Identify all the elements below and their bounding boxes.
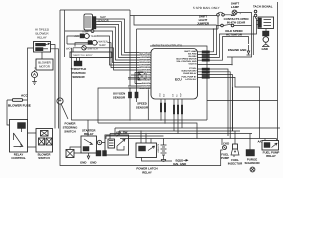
bus wire y133.5 (110, 134, 252, 140)
junction dots bottom buses (129, 119, 131, 121)
wire ps switch down to bottom bus (60, 104, 223, 165)
fuel pump relay (262, 141, 279, 151)
svg-text:JUMPER: JUMPER (197, 22, 210, 26)
svg-text:LATCH RLY: LATCH RLY (185, 78, 197, 81)
relay aux contact circle (97, 140, 101, 144)
svg-text:IGN. GND: IGN. GND (173, 162, 186, 166)
wire injector drop (234, 131, 236, 144)
inline connectors below ECU (160, 103, 183, 114)
svg-text:GND: GND (158, 92, 161, 97)
junction circle sensor (91, 30, 94, 33)
label OXYGEN SENSOR (113, 92, 126, 100)
wires stack1 to top right (210, 21, 259, 61)
ECU right connector stack 1 (198, 51, 210, 61)
oxygen sensor connector (128, 92, 131, 120)
label POWER LATCH RELAY (136, 167, 157, 175)
fuel injector (231, 144, 239, 157)
idle speed actuator (258, 17, 274, 29)
starter relay (81, 136, 97, 153)
junction dot wot (110, 57, 112, 59)
oxygen sensor drop wire (129, 88, 131, 92)
ECU right pin labels (176, 50, 197, 81)
speed sensor drop wire (136, 84, 138, 93)
svg-text:INJECTOR: INJECTOR (228, 162, 243, 166)
svg-text:SWITCH: SWITCH (38, 156, 49, 160)
wire ecu to engine gnd junction (198, 57, 233, 65)
big box bottom left corner wire (72, 46, 278, 120)
svg-text:RELAY: RELAY (84, 132, 94, 136)
pointer to label (61, 104, 68, 119)
actuator inline connector (263, 31, 270, 36)
WOT switch (66, 46, 98, 51)
svg-text:TEMP: TEMP (91, 35, 98, 38)
ground under starter relay (87, 153, 90, 159)
wire long vertical speed sensor feed (136, 29, 138, 84)
svg-text:THROTTLE BODY: THROTTLE BODY (73, 54, 93, 57)
wire enclosure top to shift light jumper (130, 10, 217, 86)
svg-text:SWITCH: SWITCH (64, 130, 75, 134)
wire air temp to ECU (67, 36, 151, 65)
wires to TPS (73, 48, 80, 61)
wire wot bus to contacts (137, 16, 252, 29)
svg-text:SENSOR: SENSOR (72, 75, 85, 79)
junction dots (129, 87, 131, 89)
svg-text:AIR: AIR (75, 35, 79, 38)
shift light jumper (217, 12, 225, 16)
wire ecu aux drop (147, 88, 149, 120)
wire fuel pump relay feed (265, 139, 277, 141)
svg-text:TEMP: TEMP (99, 44, 106, 47)
wire relay bottom to blower motor (41, 52, 43, 59)
svg-text:TACH IN: TACH IN (188, 63, 197, 66)
ECU bottom pin stubs (161, 99, 182, 105)
bus wire y138.5 (120, 138, 277, 140)
svg-text:WTR TEMP: WTR TEMP (139, 59, 151, 62)
svg-text:INJ: INJ (175, 94, 178, 97)
engine sensor enclosure left edge (59, 10, 61, 98)
blower fuse (7, 99, 28, 102)
wire wot switch row (67, 44, 151, 70)
label FUEL PUMP left (221, 153, 229, 161)
wire starter relay to ign switch (97, 142, 106, 144)
label IDLE SPEED ACTUATOR (225, 29, 242, 37)
actuator motor (263, 36, 269, 42)
wires ECU bottom pins to buses (161, 112, 182, 134)
svg-text:VSS GND: VSS GND (141, 78, 151, 81)
blower switch (36, 129, 53, 153)
MAP sensor (84, 14, 96, 30)
fuel pump sender (223, 146, 227, 150)
power latch relay (136, 143, 172, 161)
svg-text:BLOWER FUSE: BLOWER FUSE (8, 104, 31, 108)
speed sensor connector (135, 92, 138, 102)
svg-text:BATTERY: BATTERY (157, 144, 160, 154)
label FUEL INJECTOR (228, 158, 243, 166)
ground under actuator motor (262, 42, 270, 51)
ignition switch (105, 135, 129, 155)
bus wire y131 (119, 131, 240, 135)
wire drops into power latch relay (141, 131, 151, 143)
svg-text:GND: GND (262, 47, 268, 51)
enclosure top edge (60, 9, 130, 11)
label MAP SENSOR (97, 16, 108, 23)
svg-text:CKD: CKD (223, 142, 229, 146)
hi speed blower relay (34, 42, 51, 53)
svg-text:TACH SIGNAL: TACH SIGNAL (253, 5, 273, 9)
wire fuse to relay control (7, 100, 10, 125)
label CONTACTS OPEN IN 4TH GEAR (224, 17, 249, 25)
wire lamp to contacts chain (227, 13, 253, 58)
svg-text:ACC: ACC (21, 94, 28, 98)
air temp sensor (75, 34, 98, 39)
ground under battery (161, 158, 166, 162)
svg-text:SENSOR: SENSOR (113, 96, 126, 100)
svg-text:GND: GND (80, 161, 86, 165)
label PURGE SOLENOID (244, 158, 259, 166)
diagnostic connector (138, 72, 146, 80)
label SHIFT LIGHT JUMPER (197, 15, 210, 26)
wire right side vertical pair (232, 87, 234, 131)
enclosure inner left edge (64, 10, 66, 57)
wire nss to starter relay (70, 147, 81, 153)
label BLOWER SWITCH (38, 153, 52, 160)
wire junction to ECU (65, 31, 151, 63)
label SPEED SENSOR (136, 102, 149, 110)
svg-text:PUMP: PUMP (221, 156, 229, 160)
throttle body box (70, 52, 112, 58)
svg-text:SOLENOID: SOLENOID (244, 161, 259, 165)
svg-text:RELAY: RELAY (266, 154, 276, 158)
throttle position sensor connector (74, 61, 82, 66)
wire relay left down to relay control (28, 48, 34, 120)
label GND GND (80, 161, 96, 165)
ECU box (151, 49, 198, 100)
svg-text:LAMP: LAMP (231, 5, 239, 9)
water temp sensor (88, 40, 108, 47)
svg-text:SENSOR: SENSOR (136, 106, 149, 110)
wire purge solenoid drop (249, 134, 251, 150)
inline connectors under ign area (96, 151, 107, 157)
wire bundle lower-left of ECU (128, 73, 151, 89)
svg-text:RELAY: RELAY (142, 171, 152, 175)
ground under blower motor (32, 78, 37, 85)
svg-text:IN 4TH GEAR: IN 4TH GEAR (227, 21, 246, 25)
battery (157, 139, 167, 159)
tach connector (254, 2, 277, 141)
svg-text:GND: GND (90, 161, 96, 165)
wire jumper to lamp (224, 14, 234, 17)
eng gnd arrow (184, 159, 188, 161)
label B2D ENG GND (173, 159, 186, 167)
svg-text:MOTOR: MOTOR (39, 65, 50, 69)
ECU right connector stack 2 (198, 68, 210, 78)
wire actuator to motor (265, 29, 267, 32)
wire drop into starter relay (87, 120, 89, 136)
label THROTTLE POSITION SENSOR (71, 67, 86, 79)
svg-text:ENGINE GND: ENGINE GND (228, 48, 246, 52)
blower motor symbol (32, 72, 38, 78)
bus wire y123 (98, 88, 197, 139)
bus wire y128 (115, 128, 280, 135)
wires stack2 to bottom right (210, 69, 260, 139)
contacts switch (221, 24, 234, 27)
shift lamp (232, 10, 237, 15)
engine ground arrow (247, 45, 251, 55)
power steering switch (57, 98, 63, 104)
svg-text:RELAY: RELAY (37, 36, 47, 40)
label FUEL PUMP RELAY (263, 151, 280, 159)
label SHIFT LAMP (231, 2, 240, 10)
label STARTER RELAY (82, 129, 96, 137)
wire relay coil down (51, 49, 59, 129)
label HI SPEED BLOWER RELAY (35, 28, 50, 40)
label RELAY CONTROL (11, 153, 26, 160)
svg-text:PUMP RELAY: PUMP RELAY (183, 72, 197, 75)
wires MAP sensor to ECU (96, 19, 151, 60)
wire relay to bus (51, 45, 56, 129)
svg-text:5 SPD MAN. ONLY: 5 SPD MAN. ONLY (193, 6, 220, 10)
svg-text:INPUTS/OUTPUTS: INPUTS/OUTPUTS (152, 44, 183, 48)
svg-text:ACTUATOR: ACTUATOR (226, 33, 243, 37)
ECU left pin labels (139, 51, 151, 90)
wire water temp to ECU (75, 43, 151, 68)
blower motor box (36, 59, 53, 70)
svg-text:CONTROL: CONTROL (11, 156, 26, 160)
wire motor box to motor (35, 68, 37, 72)
ECU bottom pin vertical labels (158, 92, 182, 97)
wire ckd drop (221, 139, 223, 146)
relay control module (10, 120, 28, 153)
purge solenoid (246, 150, 255, 157)
neutral safety switch connector (66, 150, 74, 158)
bus wire y136 (106, 136, 164, 139)
label POWER STEERING SWITCH (63, 122, 79, 134)
wire relay control to blower switch (28, 133, 37, 147)
purge solenoid valve (250, 167, 255, 172)
svg-text:IGN. SW: IGN. SW (116, 131, 128, 135)
